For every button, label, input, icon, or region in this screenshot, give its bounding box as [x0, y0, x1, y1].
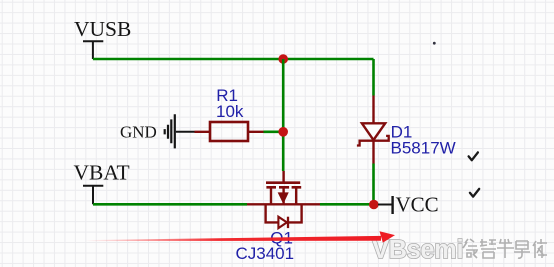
- svg-text:B5817W: B5817W: [391, 138, 456, 157]
- stray ink dot: [433, 42, 436, 45]
- watermark CJK glyphs: [463, 239, 547, 258]
- label R1: [216, 86, 238, 105]
- junction VCC: [369, 200, 379, 210]
- power port VBAT: [74, 161, 130, 205]
- wire R1 to gate branch: [264, 131, 284, 134]
- transistor Q1 (P-MOSFET): [247, 171, 320, 228]
- watermark VBsemi: [372, 236, 463, 264]
- svg-text:CJ3401: CJ3401: [236, 244, 295, 263]
- wire top rail corner to diode: [372, 59, 375, 96]
- label CJ3401: [236, 244, 295, 263]
- wire junction to port VCC: [378, 204, 392, 206]
- svg-text:VBAT: VBAT: [74, 161, 130, 185]
- annotation arrow: [85, 231, 395, 242]
- label 10k: [216, 102, 244, 121]
- check mark 2: [470, 189, 479, 197]
- wire VBAT to Q1: [93, 203, 247, 206]
- svg-text:VUSB: VUSB: [74, 17, 131, 41]
- svg-text:10k: 10k: [216, 102, 244, 121]
- power port VUSB: [74, 17, 131, 59]
- svg-text:VCC: VCC: [396, 193, 439, 217]
- wire VUSB to diode branch (top rail): [93, 58, 374, 61]
- svg-text:GND: GND: [120, 123, 157, 142]
- junction R1 / gate branch: [278, 127, 288, 137]
- label D1: [391, 123, 413, 142]
- wire Q1 to VCC: [320, 203, 374, 206]
- check mark 1: [469, 152, 478, 160]
- wire GND to R1: [176, 131, 195, 133]
- label B5817W: [391, 138, 456, 157]
- power port VCC: [393, 193, 439, 217]
- junction top rail / gate branch: [278, 54, 288, 64]
- wire gate branch vertical: [282, 59, 285, 171]
- diode D1 schottky: [357, 96, 389, 164]
- ground: [120, 114, 175, 148]
- wire diode to VCC rail: [372, 164, 375, 205]
- resistor R1: [195, 122, 264, 141]
- label Q1: [270, 228, 293, 247]
